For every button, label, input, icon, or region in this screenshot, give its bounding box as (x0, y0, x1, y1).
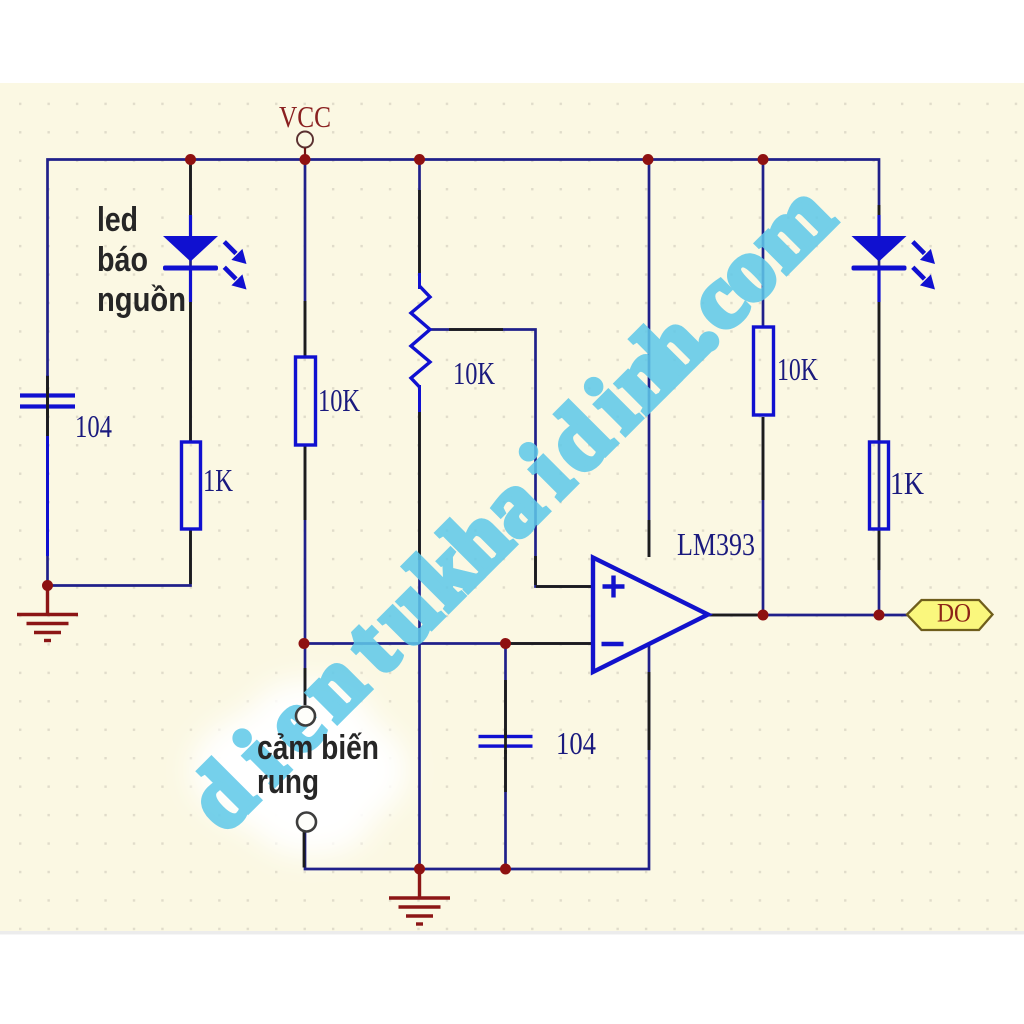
svg-text:led: led (97, 201, 138, 239)
svg-text:cảm biến: cảm biến (257, 729, 379, 767)
svg-text:104: 104 (75, 408, 112, 444)
svg-text:nguồn: nguồn (97, 281, 186, 319)
svg-text:10K: 10K (318, 382, 360, 418)
svg-text:10K: 10K (453, 355, 495, 391)
svg-text:1K: 1K (890, 465, 924, 501)
svg-text:104: 104 (556, 725, 596, 761)
svg-text:VCC: VCC (279, 99, 331, 134)
svg-text:rung: rung (257, 763, 319, 801)
svg-text:1K: 1K (203, 462, 233, 498)
svg-text:LM393: LM393 (677, 526, 755, 562)
svg-text:10K: 10K (777, 351, 818, 387)
svg-text:báo: báo (97, 241, 148, 279)
svg-text:DO: DO (937, 599, 971, 628)
